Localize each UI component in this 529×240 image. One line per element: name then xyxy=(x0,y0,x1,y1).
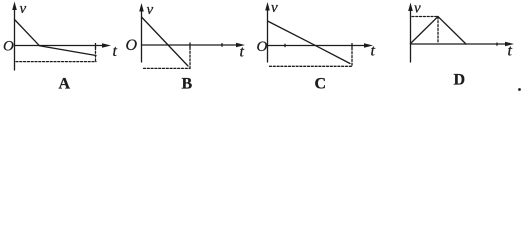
svg-text:C: C xyxy=(315,76,327,93)
svg-text:v: v xyxy=(20,1,27,17)
svg-text:t: t xyxy=(113,43,118,60)
svg-text:t: t xyxy=(371,43,376,60)
svg-text:v: v xyxy=(271,0,278,16)
svg-text:O: O xyxy=(257,39,268,55)
svg-text:D: D xyxy=(454,72,466,89)
svg-text:B: B xyxy=(182,76,193,93)
svg-text:O: O xyxy=(126,37,138,54)
svg-text:t: t xyxy=(508,43,513,60)
svg-text:v: v xyxy=(414,1,421,17)
svg-text:t: t xyxy=(240,44,245,61)
svg-text:O: O xyxy=(3,39,14,55)
svg-text:A: A xyxy=(59,76,71,93)
svg-text:v: v xyxy=(147,2,154,18)
